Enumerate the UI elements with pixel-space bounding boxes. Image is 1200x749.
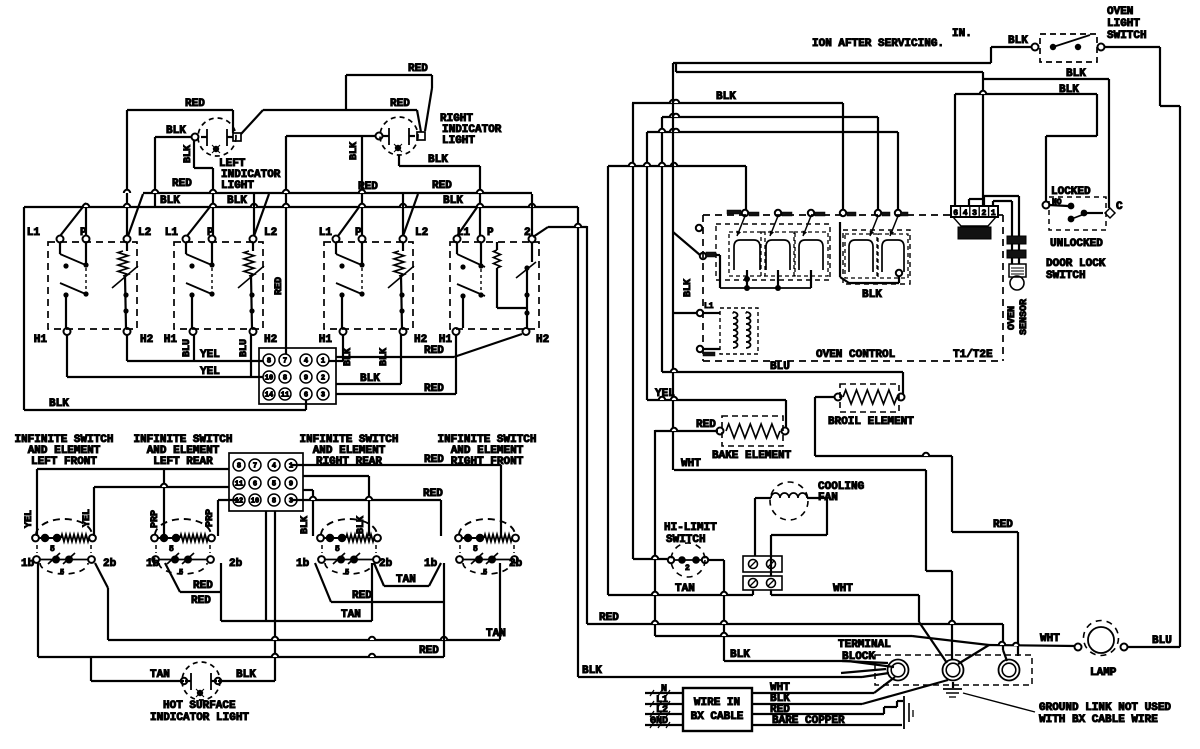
svg-text:BLU: BLU xyxy=(1152,635,1172,647)
svg-text:WHT: WHT xyxy=(833,583,853,595)
svg-text:RED: RED xyxy=(419,645,439,657)
svg-text:2: 2 xyxy=(321,375,325,383)
svg-text:LIGHT: LIGHT xyxy=(221,180,254,192)
svg-text:TAN: TAN xyxy=(150,669,170,681)
svg-text:H1: H1 xyxy=(34,334,48,346)
svg-text:BLK: BLK xyxy=(1059,84,1079,96)
svg-text:TAN: TAN xyxy=(396,574,416,586)
svg-text:RED: RED xyxy=(172,178,192,190)
svg-text:7: 7 xyxy=(283,358,287,366)
svg-text:L1: L1 xyxy=(319,227,333,239)
svg-text:C: C xyxy=(1116,201,1123,213)
svg-text:9: 9 xyxy=(304,375,308,383)
svg-text:SWITCH: SWITCH xyxy=(1107,30,1147,42)
svg-text:3: 3 xyxy=(321,392,325,400)
svg-text:BLK: BLK xyxy=(349,142,360,160)
svg-text:BLU: BLU xyxy=(182,339,193,357)
svg-text:5: 5 xyxy=(473,545,478,554)
svg-text:4: 4 xyxy=(304,358,308,366)
svg-text:BROIL ELEMENT: BROIL ELEMENT xyxy=(828,416,914,428)
svg-text:H2: H2 xyxy=(264,334,277,346)
svg-text:ION AFTER SERVICING.: ION AFTER SERVICING. xyxy=(812,38,944,50)
svg-text:L2: L2 xyxy=(656,705,668,716)
svg-text:LAMP: LAMP xyxy=(1090,667,1117,679)
svg-text:BLU: BLU xyxy=(239,339,250,357)
svg-text:RED: RED xyxy=(185,98,205,110)
svg-text:BLK: BLK xyxy=(227,195,247,207)
svg-text:TAN: TAN xyxy=(341,609,361,621)
svg-text:RED: RED xyxy=(424,383,444,395)
svg-text:L2: L2 xyxy=(138,227,151,239)
svg-text:TAN: TAN xyxy=(675,583,695,595)
svg-text:OVEN: OVEN xyxy=(1007,306,1018,330)
svg-text:L2: L2 xyxy=(264,227,277,239)
svg-text:PRP: PRP xyxy=(205,509,216,527)
svg-text:11: 11 xyxy=(281,392,289,400)
svg-text:BLU: BLU xyxy=(770,361,790,373)
svg-text:1: 1 xyxy=(289,463,293,471)
svg-text:BLK: BLK xyxy=(683,279,694,297)
svg-text:10: 10 xyxy=(251,498,259,506)
svg-text:5: 5 xyxy=(50,545,55,554)
svg-text:6: 6 xyxy=(253,481,257,489)
svg-text:5: 5 xyxy=(169,545,174,554)
svg-text:BX CABLE: BX CABLE xyxy=(691,711,744,723)
svg-text:INDICATOR LIGHT: INDICATOR LIGHT xyxy=(150,712,249,724)
svg-text:WITH BX CABLE WIRE: WITH BX CABLE WIRE xyxy=(1039,714,1158,726)
svg-text:RED: RED xyxy=(424,454,444,466)
svg-text:BLK: BLK xyxy=(160,195,180,207)
svg-text:1b: 1b xyxy=(424,558,438,570)
svg-text:P: P xyxy=(207,227,214,239)
svg-text:RED: RED xyxy=(390,98,410,110)
svg-text:BLK: BLK xyxy=(443,195,463,207)
svg-text:P: P xyxy=(487,227,494,239)
svg-text:11: 11 xyxy=(235,481,243,489)
svg-text:GROUND LINK NOT USED: GROUND LINK NOT USED xyxy=(1039,702,1171,714)
svg-text:RED: RED xyxy=(432,180,452,192)
svg-text:8: 8 xyxy=(283,375,287,383)
svg-text:5: 5 xyxy=(60,569,64,577)
svg-text:DOOR LOCK: DOOR LOCK xyxy=(1046,258,1106,270)
svg-text:H2: H2 xyxy=(140,334,153,346)
svg-text:6: 6 xyxy=(304,392,308,400)
svg-text:SWITCH: SWITCH xyxy=(666,534,706,546)
svg-text:3: 3 xyxy=(289,498,293,506)
svg-text:BLK: BLK xyxy=(183,145,194,163)
svg-text:2b: 2b xyxy=(379,558,393,570)
svg-text:8: 8 xyxy=(272,498,276,506)
svg-text:BLK: BLK xyxy=(360,373,380,385)
svg-text:TERMINAL: TERMINAL xyxy=(838,639,891,651)
svg-text:RED: RED xyxy=(352,590,372,602)
svg-text:5: 5 xyxy=(335,545,340,554)
svg-text:YEL: YEL xyxy=(200,366,220,378)
svg-text:BLK: BLK xyxy=(862,289,882,301)
svg-text:YEL: YEL xyxy=(200,349,220,361)
svg-text:P: P xyxy=(80,227,87,239)
svg-text:BLK: BLK xyxy=(166,125,186,137)
svg-text:4: 4 xyxy=(272,463,276,471)
svg-text:5: 5 xyxy=(483,569,487,577)
svg-text:14: 14 xyxy=(265,392,273,400)
svg-text:2b: 2b xyxy=(229,558,243,570)
svg-text:HI-LIMIT: HI-LIMIT xyxy=(664,522,717,534)
svg-text:RED: RED xyxy=(993,519,1013,531)
svg-text:PRP: PRP xyxy=(150,510,161,528)
svg-text:H2: H2 xyxy=(536,334,549,346)
svg-text:RED: RED xyxy=(191,595,211,607)
svg-text:RIGHT FRONT: RIGHT FRONT xyxy=(451,456,524,468)
svg-text:RED: RED xyxy=(424,345,444,357)
svg-text:5: 5 xyxy=(179,569,183,577)
svg-text:BLK: BLK xyxy=(582,665,602,677)
svg-text:SENSOR: SENSOR xyxy=(1019,299,1030,335)
svg-text:BLK: BLK xyxy=(356,516,367,534)
svg-text:LEFT FRONT: LEFT FRONT xyxy=(31,456,97,468)
svg-text:L2: L2 xyxy=(415,227,428,239)
svg-text:2b: 2b xyxy=(103,558,117,570)
svg-text:LIGHT: LIGHT xyxy=(1107,18,1140,30)
svg-text:FAN: FAN xyxy=(818,492,838,504)
svg-text:RED: RED xyxy=(599,612,619,624)
svg-text:RED: RED xyxy=(408,63,428,75)
svg-text:H1: H1 xyxy=(164,334,178,346)
svg-text:H1: H1 xyxy=(319,334,333,346)
svg-text:TAN: TAN xyxy=(486,628,506,640)
svg-text:2: 2 xyxy=(685,564,690,573)
svg-text:WHT: WHT xyxy=(681,458,701,470)
svg-text:2b: 2b xyxy=(509,558,523,570)
svg-text:RED: RED xyxy=(274,277,285,295)
svg-text:BLK: BLK xyxy=(730,649,750,661)
svg-text:WHT: WHT xyxy=(1040,633,1060,645)
svg-text:5: 5 xyxy=(272,481,276,489)
svg-text:WIRE IN: WIRE IN xyxy=(694,697,740,709)
svg-text:RED: RED xyxy=(696,419,716,431)
svg-text:T1/T2E: T1/T2E xyxy=(953,349,993,361)
svg-text:HOT SURFACE: HOT SURFACE xyxy=(163,700,236,712)
svg-text:8: 8 xyxy=(237,463,241,471)
svg-text:10: 10 xyxy=(265,375,273,383)
svg-text:BLK: BLK xyxy=(300,516,311,534)
svg-text:LEFT REAR: LEFT REAR xyxy=(153,456,213,468)
svg-text:RED: RED xyxy=(423,488,443,500)
svg-text:1b: 1b xyxy=(146,558,160,570)
svg-text:12: 12 xyxy=(235,498,243,506)
svg-text:BLK: BLK xyxy=(236,669,256,681)
svg-text:8: 8 xyxy=(267,358,271,366)
svg-text:BLK: BLK xyxy=(49,398,69,410)
svg-text:RIGHT REAR: RIGHT REAR xyxy=(316,456,382,468)
svg-text:P: P xyxy=(355,227,362,239)
svg-text:BLK: BLK xyxy=(1008,35,1028,47)
svg-text:1: 1 xyxy=(321,358,325,366)
svg-text:RED: RED xyxy=(193,580,213,592)
svg-text:YEL: YEL xyxy=(24,510,35,528)
svg-text:OVEN CONTROL: OVEN CONTROL xyxy=(816,349,896,361)
svg-text:N: N xyxy=(661,684,667,695)
svg-text:5: 5 xyxy=(345,569,349,577)
svg-text:1b: 1b xyxy=(21,558,35,570)
svg-text:LIGHT: LIGHT xyxy=(442,135,475,147)
svg-text:9: 9 xyxy=(289,481,293,489)
svg-text:L1: L1 xyxy=(165,227,179,239)
svg-text:IN.: IN. xyxy=(952,28,972,40)
svg-text:L1: L1 xyxy=(704,302,714,311)
svg-text:1b: 1b xyxy=(296,558,310,570)
svg-text:L1: L1 xyxy=(27,227,41,239)
svg-text:BAKE ELEMENT: BAKE ELEMENT xyxy=(712,450,792,462)
svg-text:YEL: YEL xyxy=(82,509,93,527)
svg-text:BLK: BLK xyxy=(428,154,448,166)
svg-text:SWITCH: SWITCH xyxy=(1046,270,1086,282)
svg-text:GND: GND xyxy=(650,716,668,727)
svg-text:OVEN: OVEN xyxy=(1107,6,1133,18)
svg-text:7: 7 xyxy=(253,463,257,471)
svg-text:BLK: BLK xyxy=(716,91,736,103)
svg-text:LOCKED: LOCKED xyxy=(1051,186,1091,198)
svg-text:BLK: BLK xyxy=(1066,68,1086,80)
svg-text:UNLOCKED: UNLOCKED xyxy=(1050,238,1103,250)
